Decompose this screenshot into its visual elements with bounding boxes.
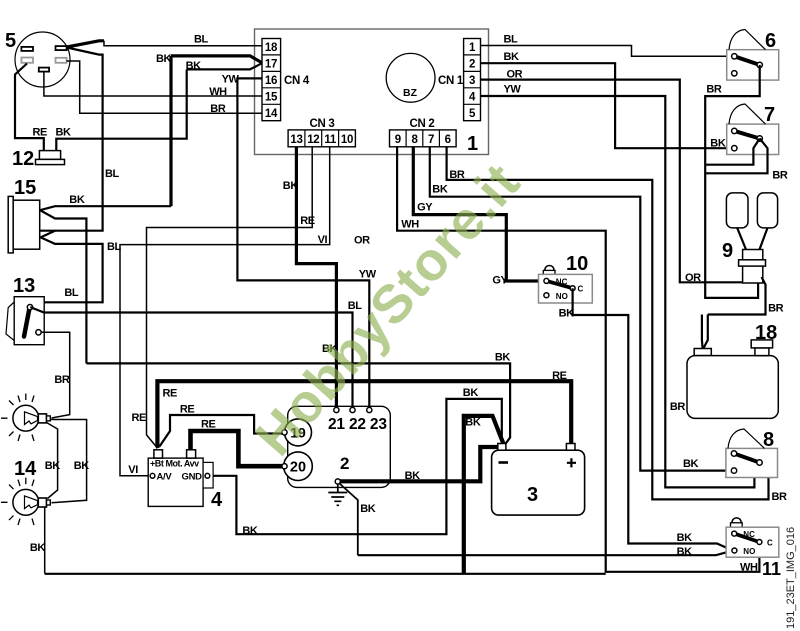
connector CN1: [438, 39, 481, 121]
svg-text:BK: BK: [360, 503, 376, 515]
connector CN4: [262, 39, 310, 121]
svg-text:7: 7: [428, 134, 434, 146]
wire BL switch13 to engine terminal 22: [30, 307, 352, 410]
svg-text:CN 4: CN 4: [284, 75, 310, 87]
wire OR CN1 pin3 to coil 9: [481, 80, 743, 283]
svg-text:RE: RE: [132, 412, 147, 424]
svg-text:1: 1: [467, 133, 478, 155]
svg-text:NC: NC: [556, 278, 568, 287]
wire BR key-switch to CN4 pin14: [67, 61, 263, 113]
horn 12: [12, 148, 65, 170]
svg-text:15: 15: [14, 177, 36, 199]
wire BK lamp 14b to ground rail: [44, 507, 46, 574]
svg-text:BR: BR: [772, 491, 788, 503]
svg-text:BK: BK: [465, 417, 481, 429]
svg-text:191_23ET_IMG_016: 191_23ET_IMG_016: [785, 527, 797, 629]
svg-text:NC: NC: [743, 530, 755, 539]
svg-text:BR: BR: [210, 103, 226, 115]
svg-text:NO: NO: [556, 292, 568, 301]
svg-text:RE: RE: [33, 127, 48, 139]
svg-text:YW: YW: [222, 74, 240, 86]
svg-text:18: 18: [755, 322, 777, 344]
lamp 14b: [1, 478, 50, 525]
svg-text:BR: BR: [670, 401, 686, 413]
svg-text:21 22 23: 21 22 23: [328, 416, 387, 433]
svg-text:15: 15: [265, 91, 278, 103]
switch 10: [539, 253, 593, 303]
svg-text:BR: BR: [54, 374, 70, 386]
svg-text:BK: BK: [30, 542, 46, 554]
wire WH key-switch to CN4 pin15: [44, 72, 262, 97]
svg-text:BK: BK: [405, 470, 421, 482]
svg-text:12: 12: [307, 134, 319, 146]
lamp 14a: [1, 394, 50, 481]
wire BK engine to battery minus: [340, 447, 498, 481]
svg-text:WH: WH: [740, 561, 758, 573]
wire GY CN2 pin8 to switch 10 NC: [413, 147, 544, 281]
wire RE key-switch to horn 12: [15, 64, 44, 151]
wire BK lamp chain: [51, 420, 87, 503]
svg-text:6: 6: [445, 134, 451, 146]
svg-text:RE: RE: [201, 419, 216, 431]
svg-text:RE: RE: [300, 215, 315, 227]
svg-text:8: 8: [763, 429, 774, 451]
svg-text:BK: BK: [683, 458, 699, 470]
relay 4: [148, 450, 223, 511]
svg-text:BK: BK: [677, 532, 693, 544]
switch 8: [726, 429, 778, 478]
svg-text:4: 4: [469, 91, 476, 103]
svg-text:A/V: A/V: [157, 472, 173, 483]
connector CN2: [390, 118, 457, 147]
svg-text:GND: GND: [182, 472, 203, 483]
svg-text:9: 9: [722, 240, 733, 262]
wire BK CN1 pin2 to switch 7: [481, 63, 733, 148]
wire RE relay4 Mot to starter 20: [191, 431, 283, 466]
wire BK switch10 C to switch 11: [573, 288, 732, 550]
svg-text:BK: BK: [504, 51, 520, 63]
wire BR CN2 pin6 to switch 8 common: [447, 147, 769, 500]
key switch 5: [5, 30, 70, 87]
svg-text:RE: RE: [180, 404, 195, 416]
switch 7: [727, 104, 779, 155]
wire BR coil9 to tank 18: [708, 277, 766, 315]
svg-text:OR: OR: [507, 69, 523, 81]
svg-text:18: 18: [265, 42, 278, 54]
svg-text:BK: BK: [56, 127, 72, 139]
svg-text:BK: BK: [283, 180, 299, 192]
svg-text:BR: BR: [772, 170, 788, 182]
wire BL key-switch to CN4 pin 18: [67, 41, 104, 47]
svg-text:VI: VI: [128, 464, 138, 476]
svg-text:BK: BK: [156, 53, 172, 65]
wire BK engine to frame rail: [339, 483, 358, 555]
svg-text:1: 1: [469, 42, 476, 54]
wire BK CN2 pin7 to switch 8: [430, 147, 732, 471]
svg-text:GY: GY: [417, 202, 433, 214]
wire YW CN1 pin4 to switch 8: [481, 96, 760, 487]
svg-text:12: 12: [12, 148, 34, 170]
svg-text:10: 10: [341, 134, 353, 146]
ignition coil 9: [722, 193, 778, 283]
svg-text:BR: BR: [706, 84, 722, 96]
svg-text:13: 13: [290, 134, 302, 146]
wire BL key-switch down (left column): [40, 48, 103, 231]
connector 15: [8, 177, 40, 253]
svg-text:4: 4: [211, 489, 223, 511]
svg-text:BK: BK: [186, 60, 202, 72]
svg-text:OR: OR: [685, 272, 701, 284]
svg-text:5: 5: [5, 30, 16, 52]
svg-text:C: C: [578, 285, 584, 294]
svg-text:10: 10: [566, 253, 588, 275]
engine 2: [282, 406, 390, 487]
wire BL comp15 lower contact to switch 13: [41, 231, 55, 238]
svg-text:RE: RE: [163, 388, 178, 400]
svg-text:BL: BL: [194, 34, 209, 46]
svg-text:BK: BK: [495, 352, 511, 364]
tank 18: [687, 322, 778, 418]
svg-text:8: 8: [411, 134, 418, 146]
svg-text:BK: BK: [69, 194, 85, 206]
svg-text:OR: OR: [354, 235, 370, 247]
wire VI CN3 pin11 to relay 4 A/V: [120, 147, 330, 476]
battery 3: [492, 444, 585, 516]
svg-text:VI: VI: [318, 234, 328, 246]
buzzer BZ: [386, 53, 435, 102]
svg-text:BR: BR: [768, 303, 784, 315]
wire BK CN3 pin13 to engine terminal 21: [296, 147, 336, 410]
svg-text:3: 3: [469, 75, 475, 87]
ground symbol: [328, 484, 347, 505]
svg-text:14: 14: [14, 458, 37, 480]
wire BR switch13 to lamp 14a: [41, 332, 70, 418]
svg-text:2: 2: [340, 454, 349, 473]
switch 6: [727, 30, 779, 81]
wire BR switch 7 common V: [705, 139, 760, 165]
svg-text:16: 16: [265, 75, 277, 87]
svg-text:+Bt Mot. Avv: +Bt Mot. Avv: [150, 459, 199, 469]
connector CN3: [288, 118, 355, 147]
wire BK comp12 to CN4 pin 17: [187, 63, 262, 69]
wire BK comp15 upper contact arrows: [40, 206, 171, 210]
wire RE relay4 to engine circle 19: [160, 415, 283, 447]
svg-text:11: 11: [762, 559, 781, 579]
svg-text:CN 3: CN 3: [309, 118, 334, 130]
svg-text:3: 3: [527, 484, 538, 506]
svg-text:14: 14: [265, 108, 278, 120]
svg-text:BK: BK: [463, 387, 479, 399]
svg-text:CN 1: CN 1: [438, 75, 464, 87]
wire BK battery strap to ground rail: [464, 416, 504, 574]
svg-text:13: 13: [13, 275, 35, 297]
control unit U1 box: [255, 29, 489, 155]
svg-text:BK: BK: [710, 138, 726, 150]
wire WH CN2 pin9 to switch 11 C: [397, 147, 759, 572]
svg-text:BL: BL: [105, 168, 120, 180]
wire BR switch6 common down: [705, 65, 760, 298]
svg-text:C: C: [767, 538, 773, 547]
switch 13: [6, 275, 44, 345]
wire RE battery plus rail to relay 4: [157, 381, 571, 450]
svg-text:BZ: BZ: [403, 87, 418, 99]
svg-text:BK: BK: [432, 184, 448, 196]
svg-text:YW: YW: [504, 84, 522, 96]
svg-text:GY: GY: [492, 275, 508, 287]
svg-text:BK: BK: [559, 308, 575, 320]
svg-text:17: 17: [265, 59, 277, 71]
svg-text:WH: WH: [209, 86, 227, 98]
wire YW CN4 pin16 to engine terminal 23: [237, 78, 369, 410]
svg-text:BL: BL: [64, 287, 79, 299]
svg-text:6: 6: [765, 30, 776, 52]
wire BL CN1 pin1 to switch 6: [481, 46, 733, 57]
svg-text:7: 7: [764, 104, 775, 126]
svg-text:5: 5: [469, 108, 476, 120]
svg-text:9: 9: [395, 134, 401, 146]
wire RE CN3 pin12 to relay 4: [147, 147, 313, 447]
wire BK battery-minus rail: [86, 363, 510, 444]
svg-text:RE: RE: [552, 370, 567, 382]
svg-text:BK: BK: [45, 460, 61, 472]
svg-text:BK: BK: [677, 546, 693, 558]
svg-text:2: 2: [469, 59, 475, 71]
svg-text:BK: BK: [74, 460, 90, 472]
wire ground rail bottom: [45, 573, 606, 575]
svg-text:WH: WH: [401, 219, 419, 231]
svg-text:CN 2: CN 2: [409, 118, 434, 130]
wire BK comp15 to CN4 pin 17 (chevron): [171, 56, 262, 63]
wire BK relay4 GND to battery minus: [210, 399, 505, 534]
switch 11: [726, 518, 781, 579]
svg-text:BL: BL: [504, 34, 519, 46]
svg-text:NO: NO: [743, 547, 755, 556]
svg-text:11: 11: [324, 134, 336, 146]
